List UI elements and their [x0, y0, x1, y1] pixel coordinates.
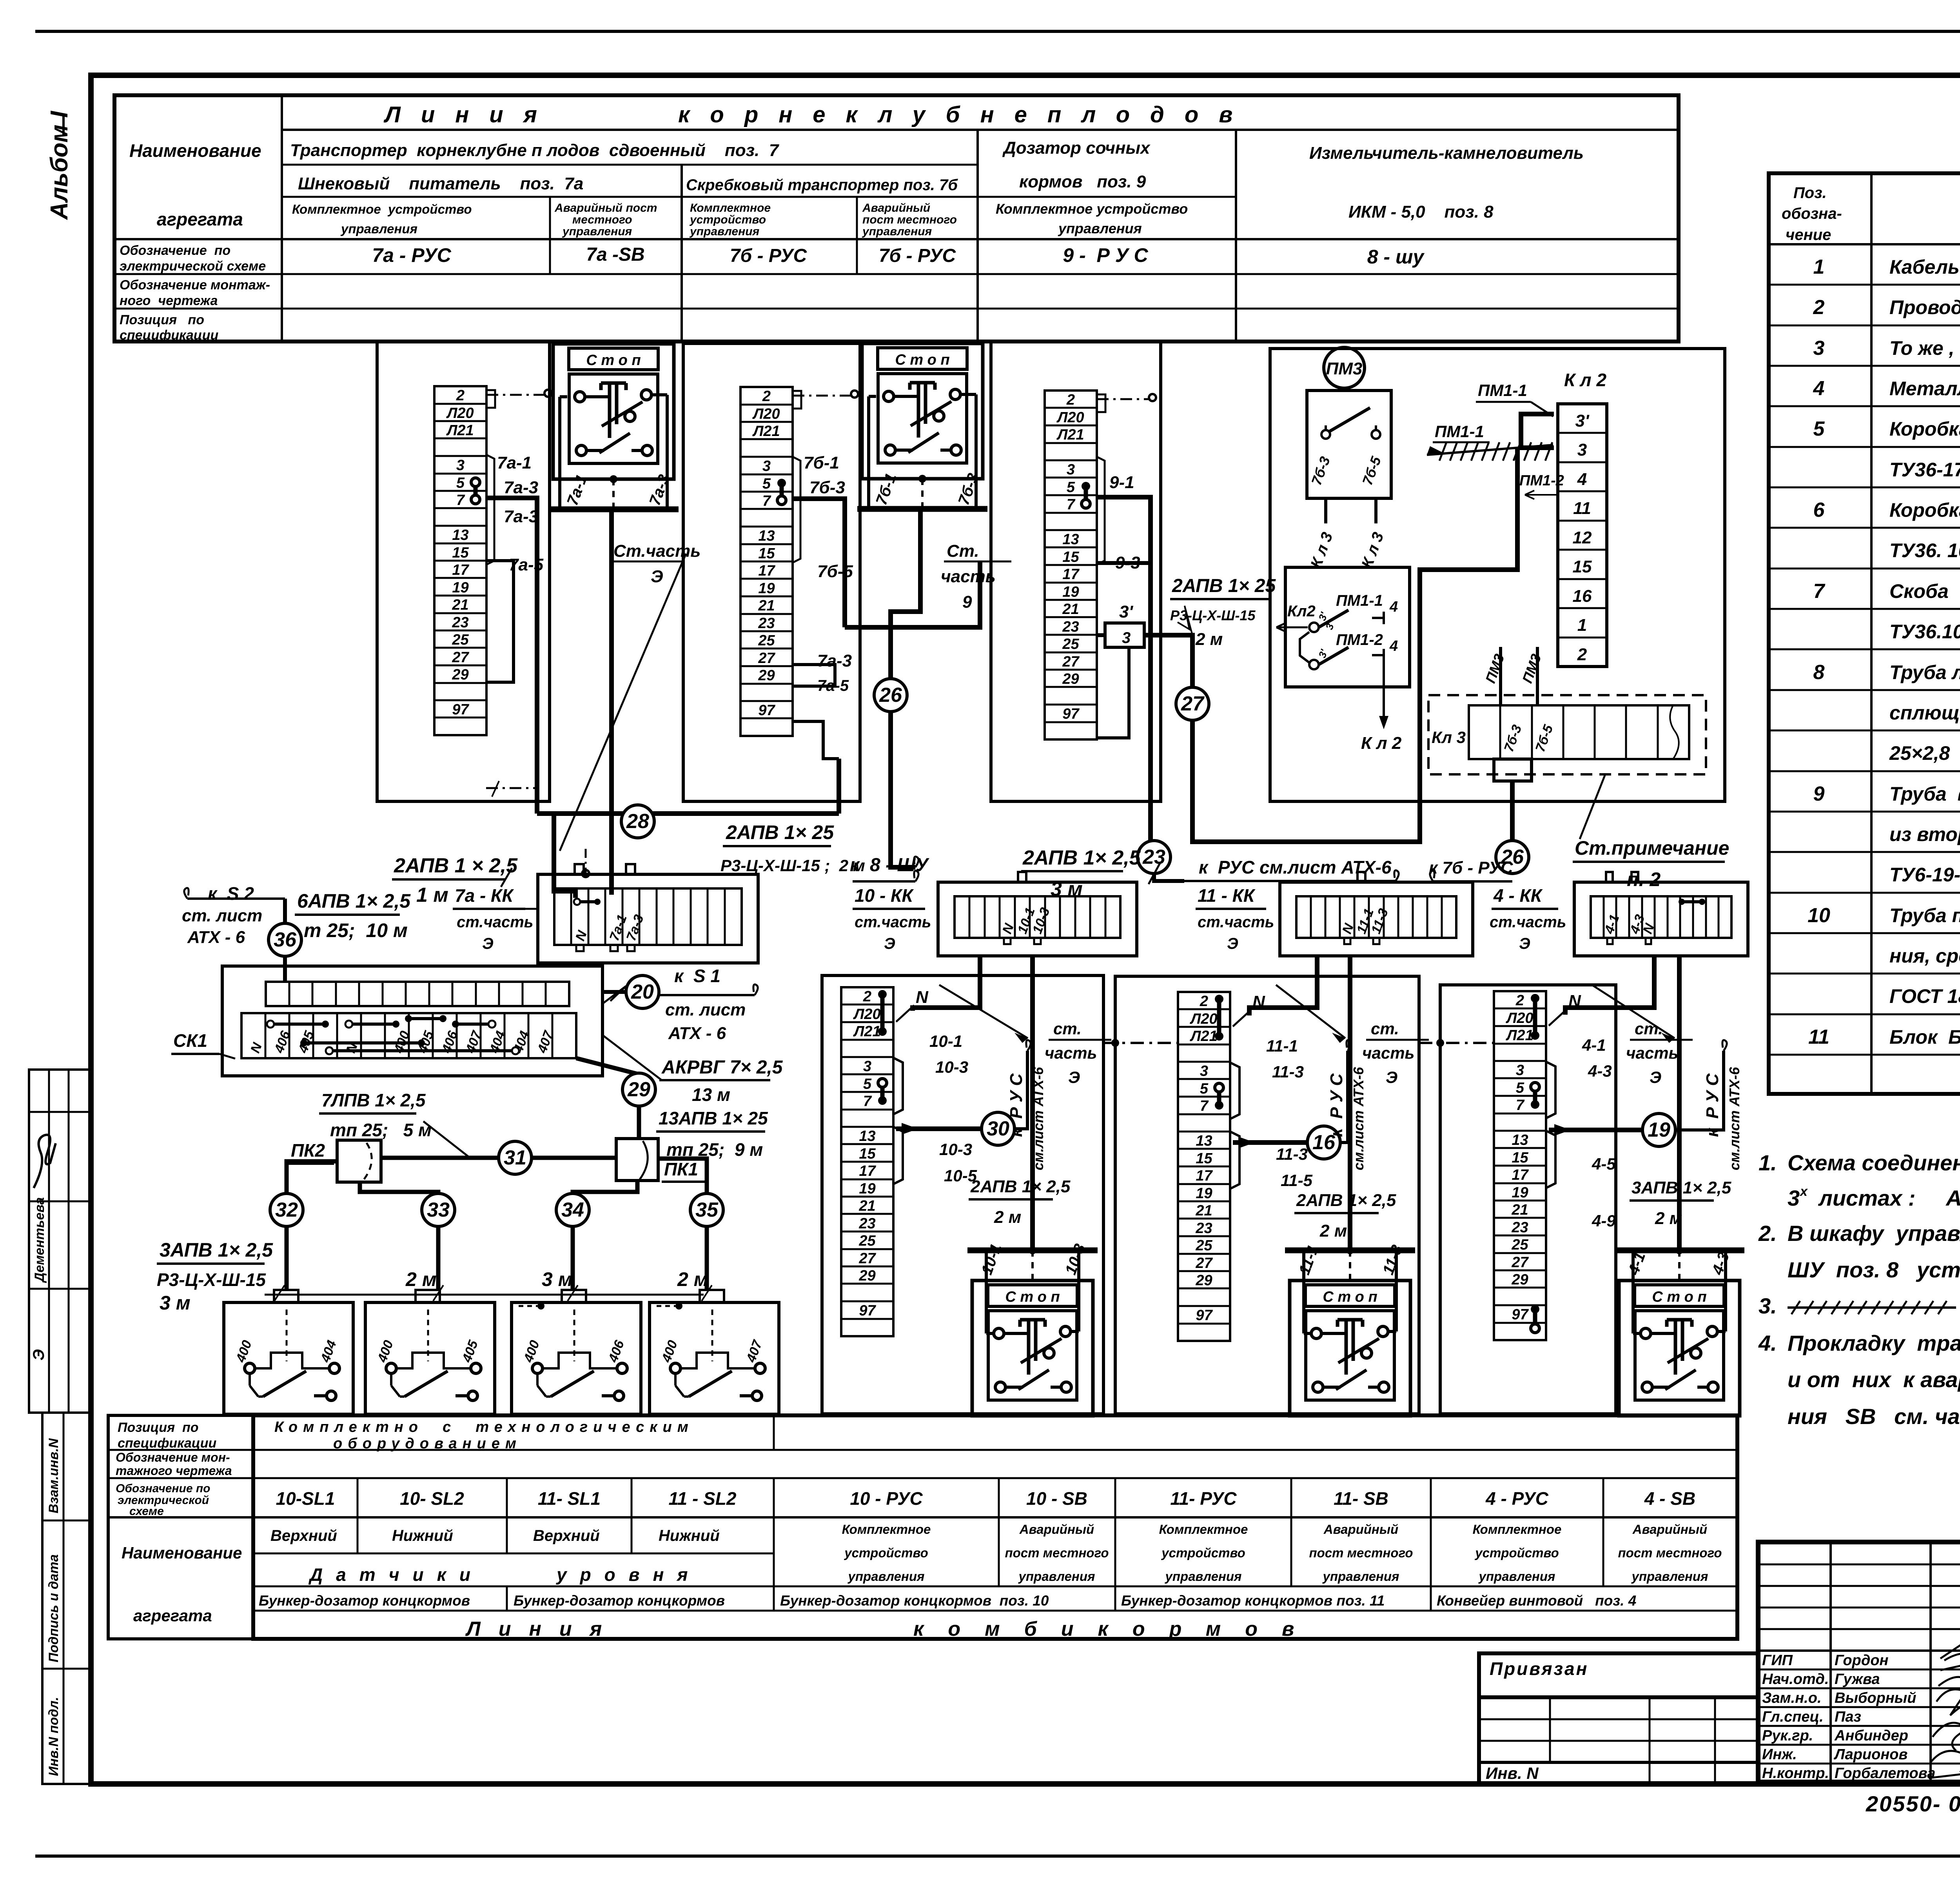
svg-text:Комплектное: Комплектное	[1473, 1522, 1562, 1537]
svg-text:уровня: уровня	[556, 1564, 701, 1585]
svg-text:Кабель ГОСТ 1508-78 АКРВГ 7: Кабель ГОСТ 1508-78 АКРВГ 7× 2,5	[1889, 256, 1960, 278]
jumper 2-L21 strip 10	[880, 994, 885, 1032]
svg-text:17: 17	[1196, 1168, 1213, 1184]
svg-text:10-3: 10-3	[939, 1140, 972, 1159]
svg-text:3.: 3.	[1759, 1293, 1777, 1318]
svg-text:7: 7	[863, 1093, 872, 1110]
jumper 5-7 strip 7b	[780, 483, 784, 500]
wire SK1 to 20	[603, 990, 626, 994]
svg-text:Паз: Паз	[1835, 1709, 1861, 1725]
svg-text:Транспортер корнеклубне п лод: Транспортер корнеклубне п лодов сдвоенны…	[290, 141, 780, 160]
svg-text:7а-1: 7а-1	[497, 453, 532, 472]
terminal strip 4	[1494, 991, 1546, 1340]
svg-text:11: 11	[1808, 1026, 1829, 1048]
page bottom rule	[35, 1855, 1960, 1858]
svg-text:С т о п: С т о п	[895, 352, 949, 368]
svg-text:тп 25; 5 м: тп 25; 5 м	[330, 1120, 432, 1140]
svg-text:Э: Э	[1650, 1068, 1661, 1086]
svg-text:тажного чертежа: тажного чертежа	[116, 1464, 232, 1478]
stop button SB 10 bottom	[972, 1281, 1093, 1416]
dash-dot neutral link 7a	[486, 394, 545, 396]
svg-text:Привязан: Привязан	[1490, 1658, 1588, 1679]
svg-text:2: 2	[1577, 645, 1587, 664]
svg-text:1 м: 1 м	[416, 884, 448, 906]
wire from 3 block to 27 and Kl2	[1144, 495, 1517, 842]
SK1 upper strip	[266, 982, 569, 1006]
wire stop7a down	[609, 509, 614, 895]
svg-text:к S 1: к S 1	[674, 966, 720, 986]
thick hook wire PM1-1 to Kl2	[1521, 414, 1554, 448]
svg-text:Верхний: Верхний	[533, 1527, 600, 1544]
svg-text:ПМ1-1: ПМ1-1	[1478, 381, 1527, 400]
svg-text:Л21: Л21	[1189, 1028, 1217, 1044]
svg-text:7а - РУС: 7а - РУС	[372, 244, 451, 266]
svg-text:9 - Р У С: 9 - Р У С	[1063, 244, 1148, 266]
svg-text:13: 13	[1512, 1132, 1528, 1148]
svg-text:N: N	[916, 988, 929, 1007]
svg-text:23: 23	[758, 615, 775, 632]
svg-text:97: 97	[1512, 1306, 1529, 1323]
svg-text:4-1: 4-1	[1582, 1036, 1606, 1054]
wire KK drop stop 10	[1030, 956, 1035, 1253]
svg-text:Л21: Л21	[1056, 427, 1084, 443]
svg-text:2: 2	[456, 387, 465, 404]
left margin stamp lower box	[42, 1413, 93, 1784]
svg-text:10 - SB: 10 - SB	[1026, 1488, 1087, 1509]
svg-text:ного чертежа: ного чертежа	[120, 293, 218, 308]
svg-text:7: 7	[1067, 496, 1076, 513]
svg-text:АТХ - 6: АТХ - 6	[668, 1024, 726, 1043]
wire junction to 28	[537, 811, 839, 816]
svg-text:Дозатор сочных: Дозатор сочных	[1002, 138, 1151, 158]
svg-text:Ст.: Ст.	[947, 541, 979, 561]
svg-text:30: 30	[987, 1117, 1009, 1140]
svg-text:21: 21	[758, 598, 775, 614]
svg-text:32: 32	[275, 1199, 298, 1221]
svg-text:11-3: 11-3	[1272, 1063, 1304, 1081]
svg-text:3': 3'	[1575, 411, 1590, 430]
svg-text:Рук.гр.: Рук.гр.	[1762, 1727, 1813, 1744]
svg-text:Конвейер винтовой поз. 4: Конвейер винтовой поз. 4	[1437, 1593, 1636, 1609]
terminal strip 9	[1045, 391, 1097, 739]
svg-text:4: 4	[1389, 599, 1398, 615]
svg-text:Обозначение по: Обозначение по	[116, 1482, 211, 1495]
cable length line	[265, 1294, 704, 1296]
revision table	[1479, 1697, 1758, 1784]
top table frame	[114, 95, 1679, 341]
wire KK drop left 11	[1249, 956, 1317, 1015]
svg-text:Кл 3: Кл 3	[1432, 728, 1466, 747]
SK1 main strip	[241, 1013, 576, 1058]
svg-text:6: 6	[1813, 499, 1825, 521]
svg-text:4: 4	[1577, 470, 1587, 489]
svg-text:7а-3: 7а-3	[504, 478, 538, 497]
svg-text:2АПВ 1× 2,5: 2АПВ 1× 2,5	[970, 1177, 1071, 1196]
bottom table body frame	[253, 1415, 1737, 1639]
svg-text:Гужва: Гужва	[1835, 1671, 1880, 1687]
wire circle to kRUS 4	[1675, 1051, 1724, 1130]
svg-text:11- SB: 11- SB	[1334, 1488, 1388, 1509]
svg-text:9: 9	[1813, 783, 1825, 805]
svg-text:управления: управления	[1322, 1569, 1399, 1584]
svg-text:2 м: 2 м	[1195, 630, 1223, 649]
svg-text:5: 5	[1067, 479, 1075, 496]
svg-text:10-1: 10-1	[929, 1032, 962, 1050]
svg-text:Обозначение мон-: Обозначение мон-	[116, 1450, 230, 1464]
svg-text:11-5: 11-5	[1281, 1171, 1313, 1190]
SK1 jumper links	[270, 1023, 325, 1026]
svg-text:25: 25	[452, 632, 469, 648]
wire PK2-PK1	[381, 1156, 616, 1160]
wire PK2 bottom drop	[360, 1182, 438, 1290]
svg-text:ПМ1-1: ПМ1-1	[1435, 422, 1484, 441]
svg-text:29: 29	[758, 667, 775, 684]
svg-text:т 25; 10 м: т 25; 10 м	[304, 919, 408, 941]
svg-text:2АПВ 1× 25: 2АПВ 1× 25	[726, 821, 834, 843]
svg-text:АТХ - 6: АТХ - 6	[187, 928, 245, 947]
wire 23 to k RUS	[1154, 873, 1184, 881]
equipment box 10	[822, 975, 1103, 1414]
svg-text:19: 19	[758, 580, 775, 597]
cable marker circle 32	[270, 1193, 303, 1226]
svg-text:Э: Э	[651, 567, 663, 586]
svg-text:3 м: 3 м	[160, 1292, 191, 1314]
level switch box 400-407	[650, 1302, 779, 1414]
svg-text:3АПВ 1× 2,5: 3АПВ 1× 2,5	[1632, 1178, 1731, 1197]
bottom table bunker verticals	[506, 1586, 508, 1611]
svg-text:см.лист АТХ-6: см.лист АТХ-6	[1726, 1067, 1742, 1170]
svg-text:управления: управления	[1478, 1569, 1555, 1584]
svg-text:агрегата: агрегата	[133, 1606, 212, 1625]
svg-text:4 - РУС: 4 - РУС	[1485, 1488, 1549, 1509]
svg-text:ст.часть: ст.часть	[1490, 914, 1566, 931]
equipment box 11	[1115, 976, 1419, 1414]
svg-text:Комплектное устройство: Комплектное устройство	[292, 202, 472, 216]
svg-text:Комплектное устройство: Комплектное устройство	[996, 201, 1188, 217]
pull box PK1	[616, 1139, 658, 1181]
stop button SB 7b	[862, 343, 983, 479]
svg-text:Л20: Л20	[446, 405, 474, 421]
svg-text:устройство: устройство	[1161, 1546, 1245, 1560]
svg-text:5: 5	[863, 1076, 872, 1092]
svg-text:4-3: 4-3	[1588, 1062, 1612, 1080]
svg-text:7: 7	[1813, 580, 1826, 603]
wire circle to kRUS 11	[1340, 1051, 1348, 1143]
svg-text:5: 5	[456, 475, 465, 491]
svg-text:25: 25	[1062, 636, 1079, 652]
svg-text:27: 27	[1181, 692, 1205, 715]
svg-text:электрической схеме: электрической схеме	[120, 259, 266, 274]
connection box SK1	[222, 966, 603, 1076]
equipment box 4	[1440, 985, 1616, 1414]
svg-text:Ларионов: Ларионов	[1833, 1746, 1907, 1763]
wire 97 jumper strip 4	[1533, 1309, 1537, 1328]
svg-text:7б - РУС: 7б - РУС	[879, 245, 956, 266]
bottom table horizontals	[108, 1449, 1737, 1451]
svg-text:ПМ3: ПМ3	[1326, 359, 1363, 378]
svg-text:Скоба двухлапковая СД-27: Скоба двухлапковая СД-27	[1889, 580, 1960, 602]
wire bracket rows lower 4	[1546, 1131, 1555, 1188]
svg-text:6АПВ 1× 2,5: 6АПВ 1× 2,5	[297, 890, 411, 912]
wire PK2 left drop	[287, 1161, 337, 1290]
svg-text:к Р У С: к Р У С	[1007, 1073, 1026, 1137]
svg-text:3: 3	[1813, 337, 1825, 360]
terminal 3' block	[1105, 623, 1144, 647]
terminal strip 7b	[740, 387, 793, 736]
svg-text:11- РУС: 11- РУС	[1170, 1488, 1237, 1509]
left margin stamp upper box	[29, 1070, 93, 1413]
svg-text:ТУ36. 1070-75: ТУ36. 1070-75	[1889, 539, 1960, 561]
svg-text:Р3-Ц-Х-Ш-15 ; 2 м: Р3-Ц-Х-Ш-15 ; 2 м	[720, 856, 865, 875]
level switch box 400-406	[512, 1302, 641, 1414]
svg-text:15: 15	[1196, 1150, 1212, 1167]
wire Kl2 row4 stub	[1515, 448, 1520, 495]
svg-text:спецификации: спецификации	[118, 1436, 216, 1451]
jumper 2-L21 strip 11	[1217, 999, 1221, 1036]
wire bracket rows lower 11	[1230, 1132, 1240, 1189]
svg-text:Комплектное: Комплектное	[1159, 1522, 1248, 1537]
svg-text:7б-5: 7б-5	[817, 562, 853, 581]
svg-text:агрегата: агрегата	[157, 209, 243, 229]
svg-text:2 м: 2 м	[1655, 1209, 1682, 1228]
signature squiggle	[34, 1135, 56, 1188]
svg-text:13: 13	[452, 527, 468, 543]
svg-text:Позиция по: Позиция по	[118, 1420, 199, 1435]
svg-text:27: 27	[452, 649, 469, 666]
svg-text:20: 20	[631, 981, 654, 1003]
wire 7a row5 to drop	[486, 498, 537, 814]
svg-text:19: 19	[859, 1181, 875, 1197]
svg-text:Комплектное: Комплектное	[690, 202, 771, 214]
svg-text:Комплектное: Комплектное	[842, 1522, 931, 1537]
svg-text:Кл2: Кл2	[1287, 603, 1316, 620]
svg-text:25: 25	[758, 632, 775, 649]
wire KK drop stop 4	[1677, 956, 1682, 1253]
svg-text:21: 21	[1511, 1202, 1528, 1218]
wire box7a bottom dashdot	[486, 787, 537, 789]
svg-text:23: 23	[1195, 1220, 1212, 1237]
svg-text:25×2,8 ГОСТ 3262-75: 25×2,8 ГОСТ 3262-75	[1889, 742, 1960, 764]
wire 7b rows small brackets	[793, 457, 800, 563]
svg-text:ния, среднего типа, с растр: ния, среднего типа, с раструбом, dн= 25 …	[1889, 945, 1960, 967]
svg-text:19: 19	[1512, 1184, 1528, 1201]
svg-text:2.: 2.	[1758, 1221, 1777, 1246]
leader 7LPV	[423, 1121, 468, 1157]
svg-text:Верхний: Верхний	[270, 1527, 337, 1544]
svg-text:ПМ1-2: ПМ1-2	[1519, 472, 1564, 489]
wires PM3 to Kl3 block	[1499, 647, 1502, 705]
svg-text:4: 4	[1813, 377, 1825, 400]
wire strip to circle 4	[1549, 1128, 1642, 1132]
wire 9 row5 to right	[1097, 497, 1151, 635]
svg-text:С т о п: С т о п	[586, 352, 641, 369]
svg-text:2АПВ 1× 25: 2АПВ 1× 25	[1172, 576, 1276, 596]
svg-text:см.лист АТХ-6: см.лист АТХ-6	[1350, 1067, 1367, 1170]
svg-text:Л20: Л20	[752, 406, 780, 422]
svg-text:Коробка соединительная КСК-1: Коробка соединительная КСК-16	[1889, 418, 1960, 440]
svg-text:2: 2	[1813, 296, 1825, 319]
svg-text:97: 97	[1196, 1307, 1213, 1324]
svg-text:С т о п: С т о п	[1323, 1289, 1377, 1305]
svg-text:спецификации: спецификации	[120, 328, 218, 343]
svg-text:управления: управления	[1631, 1569, 1708, 1584]
svg-text:29: 29	[858, 1268, 875, 1284]
dash-dot between 10 and 11	[1103, 1042, 1178, 1044]
svg-text:2: 2	[762, 388, 771, 405]
leader st.chast E 7a	[560, 554, 686, 851]
svg-text:2: 2	[1066, 392, 1075, 408]
svg-text:15: 15	[859, 1146, 876, 1162]
svg-text:5: 5	[1516, 1080, 1524, 1096]
svg-text:пост местного: пост местного	[1618, 1546, 1722, 1560]
svg-text:Инв.N подл.: Инв.N подл.	[46, 1697, 61, 1776]
svg-text:11-3: 11-3	[1276, 1145, 1308, 1163]
svg-text:29: 29	[1062, 671, 1079, 687]
svg-text:Аварийный: Аварийный	[862, 202, 930, 214]
svg-text:к Р У С: к Р У С	[1703, 1073, 1722, 1137]
svg-text:ПМ1-2: ПМ1-2	[1336, 631, 1383, 648]
cable marker circle 31	[499, 1141, 532, 1174]
jumper 5-7 strip 10	[880, 1083, 885, 1101]
svg-text:2: 2	[1515, 992, 1524, 1009]
svg-text:17: 17	[452, 562, 469, 578]
dash-dot neutral link 9	[1097, 398, 1149, 400]
svg-text:Ст.часть: Ст.часть	[613, 541, 701, 561]
wire KK drop left 10	[913, 956, 980, 1011]
svg-text:1: 1	[1813, 256, 1825, 278]
junction box 10-KK	[938, 882, 1137, 956]
svg-text:27: 27	[1511, 1254, 1529, 1271]
svg-text:Аварийный: Аварийный	[1323, 1522, 1398, 1537]
link in 7a-KK cell N	[577, 900, 597, 903]
svg-text:7а -SB: 7а -SB	[586, 244, 644, 265]
svg-text:11 - SL2: 11 - SL2	[669, 1488, 737, 1509]
svg-text:3: 3	[1516, 1062, 1524, 1079]
svg-text:3: 3	[1200, 1063, 1208, 1079]
wire 9-3 bracket to 97	[1097, 633, 1105, 637]
svg-text:Э: Э	[1227, 935, 1238, 952]
svg-text:Провод ГОСТ 6323-79 АПВ 1: Провод ГОСТ 6323-79 АПВ 1× 2,5	[1889, 296, 1960, 318]
svg-text:27: 27	[1195, 1255, 1213, 1271]
svg-text:1: 1	[1577, 616, 1587, 635]
svg-text:7: 7	[1516, 1097, 1525, 1113]
svg-text:1.: 1.	[1759, 1150, 1777, 1175]
svg-text:7: 7	[1200, 1098, 1209, 1114]
svg-text:ния SB см. часть Э.: ния SB см. часть Э.	[1788, 1404, 1960, 1429]
svg-text:3: 3	[1788, 1186, 1800, 1210]
cable marker circle 29	[622, 1073, 655, 1106]
terminal block Kl3	[1469, 705, 1689, 759]
svg-text:10: 10	[1808, 904, 1830, 927]
svg-text:С т о п: С т о п	[1652, 1289, 1706, 1305]
svg-text:5: 5	[1813, 418, 1825, 440]
junction box 4-KK	[1574, 882, 1748, 956]
svg-text:21: 21	[1195, 1202, 1212, 1219]
svg-text:Бункер-дозатор концкормов: Бункер-дозатор концкормов	[514, 1593, 725, 1609]
svg-text:управления: управления	[1018, 1569, 1095, 1584]
svg-text:Комплектно с технологическим: Комплектно с технологическим	[274, 1419, 694, 1435]
svg-text:Альбом I: Альбом I	[46, 110, 73, 220]
svg-text:Л21: Л21	[853, 1023, 880, 1040]
svg-text:управления: управления	[1165, 1569, 1242, 1584]
svg-text:10-3: 10-3	[935, 1058, 968, 1076]
wire stop7b down to 26	[891, 509, 920, 867]
svg-text:3': 3'	[1119, 602, 1133, 621]
svg-text:31: 31	[504, 1146, 526, 1169]
wire Kl3 down to 26	[1510, 781, 1515, 872]
svg-text:2АПВ 1× 2,5: 2АПВ 1× 2,5	[1022, 846, 1141, 869]
jumper 2-L21 strip 4	[1533, 998, 1537, 1035]
svg-text:Аварийный: Аварийный	[1019, 1522, 1094, 1537]
svg-text:23: 23	[1511, 1219, 1528, 1236]
svg-text:4 - КК: 4 - КК	[1493, 885, 1543, 906]
svg-text:Р3-Ц-Х-Ш-15: Р3-Ц-Х-Ш-15	[157, 1270, 266, 1290]
svg-text:23: 23	[1062, 619, 1079, 635]
svg-text:97: 97	[452, 701, 469, 718]
bottom table cell Komplektno	[773, 1415, 775, 1450]
svg-text:ст.: ст.	[1053, 1019, 1082, 1038]
svg-text:17: 17	[758, 563, 775, 579]
svg-text:Прокладку трасс от РУСов д: Прокладку трасс от РУСов до клеммных кор…	[1788, 1331, 1960, 1355]
svg-text:11- SL1: 11- SL1	[538, 1488, 601, 1509]
wire 28 right to box 7b	[837, 759, 841, 814]
svg-text:13: 13	[758, 528, 775, 544]
svg-text:к S 2: к S 2	[208, 883, 254, 904]
wire 36 to SK1	[283, 899, 287, 923]
svg-text:4.: 4.	[1758, 1331, 1777, 1355]
svg-text:19: 19	[1062, 584, 1079, 600]
parts table frame	[1769, 173, 1960, 1094]
svg-text:23: 23	[858, 1215, 875, 1232]
level switch box 400-404	[224, 1302, 353, 1414]
svg-text:11 - КК: 11 - КК	[1198, 885, 1256, 906]
svg-text:2: 2	[1200, 993, 1208, 1010]
svg-text:устройство: устройство	[844, 1546, 928, 1560]
svg-text:Труба легкая неоцинкованная: Труба легкая неоцинкованная с полностью	[1889, 661, 1960, 683]
svg-text:Взам.инв.N: Взам.инв.N	[46, 1438, 61, 1513]
cable marker circle 20	[626, 975, 659, 1008]
jumper 5-7 strip 4	[1533, 1087, 1537, 1104]
svg-text:Нижний: Нижний	[659, 1527, 720, 1544]
svg-text:27: 27	[858, 1250, 876, 1267]
svg-text:АКРВГ 7× 2,5: АКРВГ 7× 2,5	[661, 1057, 783, 1078]
svg-text:Выборный: Выборный	[1835, 1690, 1916, 1706]
svg-text:Л20: Л20	[1056, 409, 1084, 426]
svg-text:27: 27	[1062, 654, 1080, 670]
wire KK drop stop 11	[1348, 956, 1352, 1253]
svg-text:Линия: Линия	[383, 102, 557, 127]
jumper 5-7 strip 9	[1084, 486, 1088, 504]
svg-text:3: 3	[762, 458, 771, 474]
svg-text:3АПВ 1× 2,5: 3АПВ 1× 2,5	[160, 1239, 273, 1261]
svg-text:3: 3	[1577, 440, 1587, 460]
svg-text:21: 21	[452, 597, 468, 613]
cable marker circle 26 left	[874, 679, 907, 712]
cable marker circle 23	[1138, 841, 1171, 874]
svg-text:Э: Э	[30, 1349, 47, 1361]
svg-text:3: 3	[863, 1058, 871, 1075]
cable marker circle 27	[1176, 687, 1209, 720]
svg-text:10- SL2: 10- SL2	[400, 1488, 464, 1509]
svg-text:Линия: Линия	[465, 1618, 620, 1640]
svg-text:21: 21	[1062, 601, 1079, 618]
equipment box 7b	[683, 343, 860, 801]
junction box 7a-KK	[538, 874, 758, 963]
svg-text:К л 2: К л 2	[1564, 370, 1606, 390]
leader st.chast 4	[1592, 985, 1675, 1038]
svg-text:Бункер-дозатор концкормов: Бункер-дозатор концкормов	[259, 1593, 470, 1609]
svg-text:4-5: 4-5	[1592, 1155, 1616, 1173]
